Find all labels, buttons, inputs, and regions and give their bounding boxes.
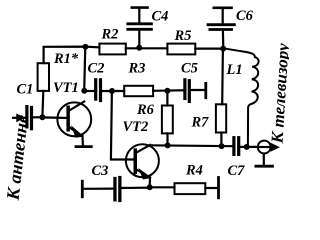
ground bar below VT1 emitter bbox=[76, 145, 91, 148]
wire VT1 emitter down bbox=[81, 136, 84, 146]
svg-text:C4: C4 bbox=[152, 9, 169, 25]
wire C2 to R3 node bbox=[102, 90, 125, 92]
svg-text:VT2: VT2 bbox=[123, 119, 149, 135]
svg-text:C3: C3 bbox=[92, 163, 109, 179]
wire collector rail VT2 to C7 bbox=[150, 144, 233, 147]
wire C5 right stem bbox=[190, 89, 204, 91]
svg-text:C7: C7 bbox=[228, 163, 246, 179]
capacitor C4 bbox=[128, 8, 152, 48]
resistor R6 bbox=[162, 106, 173, 134]
svg-text:R2: R2 bbox=[101, 27, 119, 43]
ground bar at C5 right bbox=[204, 83, 207, 97]
svg-text:C2: C2 bbox=[88, 61, 105, 77]
wire emitter node to R4 bbox=[150, 186, 175, 188]
wire C3 left stem bbox=[83, 188, 114, 190]
svg-text:R6: R6 bbox=[136, 102, 155, 118]
svg-text:C6: C6 bbox=[236, 8, 254, 24]
junction node C4 / top rail bbox=[137, 45, 142, 50]
svg-text:C5: C5 bbox=[181, 61, 198, 77]
capacitor C6 bbox=[208, 8, 234, 49]
junction node C1 / R1 / VT1 base bbox=[40, 115, 45, 120]
wire emitter node to C3 bbox=[121, 187, 149, 190]
wire R1 bottom stem bbox=[41, 91, 44, 117]
wire VT1 collector up to top rail bbox=[84, 47, 85, 91]
capacitor C5 bbox=[184, 79, 191, 103]
capacitor C1 bbox=[26, 106, 33, 130]
junction node L1 / output bbox=[244, 144, 249, 149]
junction node C2 / R3 / VT2 base bbox=[110, 89, 115, 94]
wire collector to C2 bbox=[84, 90, 94, 92]
wire R6 top stem bbox=[166, 91, 168, 106]
wire R7 bottom stem bbox=[220, 133, 222, 147]
capacitor C7 bbox=[233, 137, 240, 156]
svg-text:R7: R7 bbox=[191, 115, 210, 131]
wire R6 bottom stem bbox=[166, 133, 168, 145]
resistor R4 bbox=[175, 183, 206, 194]
inductor L1 bbox=[225, 49, 259, 147]
antenna input wire with arrow bbox=[13, 117, 26, 119]
wire VT2 emitter down to node bbox=[149, 178, 152, 188]
capacitor C2 bbox=[95, 79, 102, 102]
wire R7 top stem from C6 node bbox=[221, 49, 224, 105]
ground bar at R4 right bbox=[217, 178, 220, 198]
arrowhead antenna input bbox=[17, 114, 24, 121]
svg-text:VT1: VT1 bbox=[53, 80, 79, 96]
junction node collector / C2 bbox=[82, 88, 87, 93]
svg-text:R4: R4 bbox=[185, 163, 203, 179]
wire R3 to C5 node bbox=[153, 89, 184, 92]
resistor R1 bbox=[38, 63, 49, 91]
wire R4 right stem bbox=[205, 187, 217, 189]
junction node VT2 emitter / C3 / R4 bbox=[147, 185, 152, 190]
svg-text:R1*: R1* bbox=[53, 51, 79, 67]
wire C7 to output via L1 node bbox=[240, 146, 258, 148]
wire base node to VT1 bbox=[42, 116, 68, 119]
svg-text:R3: R3 bbox=[128, 61, 146, 77]
junction node R7 / rail bbox=[219, 144, 224, 149]
junction node at collector / top rail bbox=[83, 44, 88, 49]
junction node C6 / R7 / top rail bbox=[221, 46, 226, 51]
output connector socket bbox=[256, 141, 279, 167]
wire top rail R2 to R5 via C4 node bbox=[126, 47, 168, 49]
wire C1 to base node bbox=[33, 116, 43, 118]
svg-text:C1: C1 bbox=[17, 82, 34, 98]
svg-text:L1: L1 bbox=[226, 62, 243, 78]
wire VT2 base drop from C2 node bbox=[111, 91, 135, 160]
wire top-left corner from R1 top to collector junction bbox=[44, 47, 100, 64]
resistor R3 bbox=[124, 86, 153, 96]
transistor VT1 bbox=[57, 102, 91, 137]
resistor R5 bbox=[167, 44, 195, 55]
svg-text:R5: R5 bbox=[174, 28, 192, 44]
wire top rail R5 to C6 node bbox=[195, 47, 224, 49]
capacitor C3 bbox=[114, 176, 121, 201]
resistor R7 bbox=[216, 104, 226, 132]
junction node R3 / C5 / R6 bbox=[165, 88, 170, 93]
transistor VT2 bbox=[126, 144, 159, 178]
resistor R2 bbox=[99, 44, 125, 55]
ground bar at C3 left bbox=[81, 181, 84, 197]
junction node R6 / rail bbox=[165, 143, 170, 148]
